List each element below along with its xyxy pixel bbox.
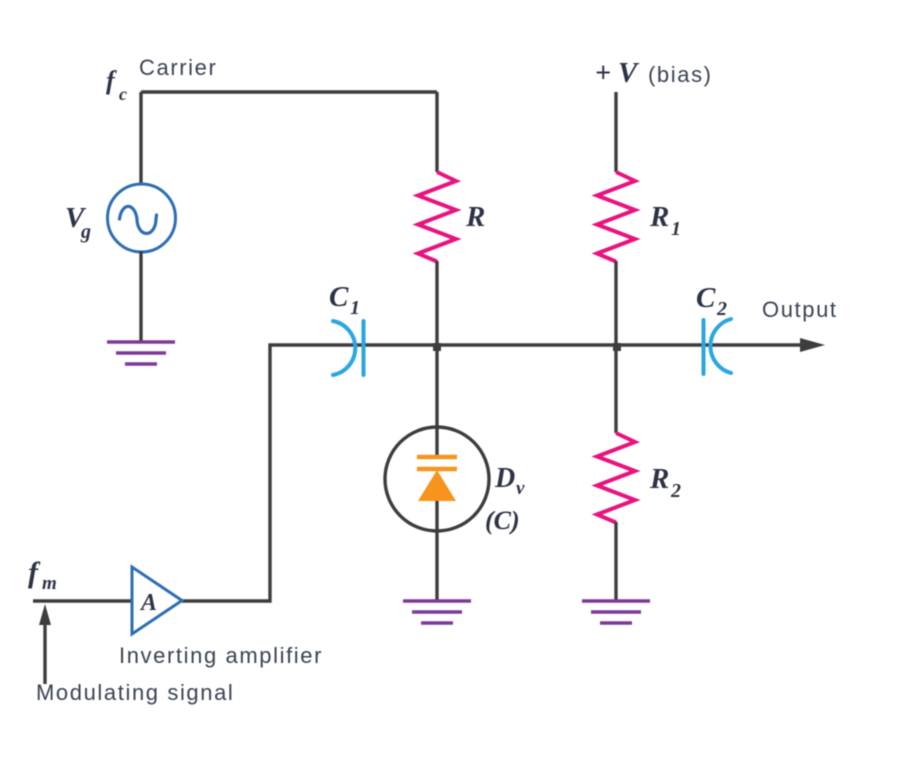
wire: bus down to R2 bbox=[614, 345, 617, 433]
ground below R2 bbox=[582, 601, 650, 623]
capacitor C1 bbox=[333, 321, 364, 375]
label R1 bbox=[649, 201, 681, 240]
label C1 bbox=[329, 281, 360, 319]
label R2 bbox=[649, 463, 681, 502]
svg-text:(bias): (bias) bbox=[648, 62, 713, 87]
svg-text:A: A bbox=[139, 590, 157, 616]
svg-text:2: 2 bbox=[670, 480, 681, 502]
svg-text:v: v bbox=[516, 478, 525, 499]
resistor R2 bbox=[597, 433, 635, 523]
svg-text:Carrier: Carrier bbox=[139, 55, 217, 80]
svg-text:Modulating signal: Modulating signal bbox=[36, 680, 234, 705]
wire: R2 bottom to ground bbox=[614, 522, 617, 601]
modulating signal arrow bbox=[39, 604, 51, 684]
source Vg bbox=[108, 184, 176, 252]
resistor R bbox=[418, 172, 456, 262]
svg-text:D: D bbox=[494, 463, 515, 494]
svg-text:1: 1 bbox=[350, 297, 360, 319]
svg-text:C: C bbox=[696, 282, 716, 314]
svg-text:V: V bbox=[618, 57, 640, 89]
wire: fm input wire bbox=[33, 599, 132, 602]
ground below Vg bbox=[107, 342, 175, 364]
wire: from top wire down to resistor R bbox=[435, 92, 438, 172]
wire: +V bias drop to R1 bbox=[614, 92, 617, 172]
wire: from amp output up and right to C1 bbox=[182, 345, 352, 601]
svg-text:2: 2 bbox=[716, 298, 727, 320]
wire: main horizontal bus between C1 and C2 bbox=[352, 343, 804, 346]
wire: left vertical down to Vg source bbox=[139, 92, 142, 183]
wire: bus down to varactor bbox=[435, 345, 438, 457]
wire: top carrier wire from fc corner to R bbox=[141, 90, 437, 93]
ground below varactor bbox=[403, 601, 471, 623]
wire: output with arrow bbox=[800, 338, 825, 352]
svg-text:Inverting amplifier: Inverting amplifier bbox=[119, 643, 323, 668]
svg-text:m: m bbox=[42, 573, 57, 594]
svg-text:C: C bbox=[329, 281, 349, 313]
svg-text:Output: Output bbox=[762, 297, 838, 322]
capacitor C2 bbox=[704, 319, 732, 374]
svg-text:f: f bbox=[106, 66, 117, 95]
resistor R1 bbox=[597, 172, 635, 262]
node at R1 / R2 junction bbox=[613, 343, 621, 351]
svg-text:g: g bbox=[80, 221, 91, 243]
svg-text:f: f bbox=[28, 556, 41, 589]
label +V (bias) bbox=[595, 57, 713, 89]
svg-text:c: c bbox=[119, 84, 127, 104]
svg-text:R: R bbox=[649, 463, 669, 495]
svg-text:R: R bbox=[465, 201, 485, 233]
label fm bbox=[28, 556, 57, 594]
wire: Vg bottom to ground bbox=[139, 251, 142, 342]
op-amp A (inverting amplifier) bbox=[132, 567, 182, 634]
wire: R1 bottom to bus bbox=[614, 261, 617, 345]
node at R / varactor junction bbox=[433, 343, 441, 351]
varactor diode Dv bbox=[385, 427, 489, 531]
label C2 bbox=[696, 282, 727, 320]
label Dv bbox=[494, 463, 525, 499]
svg-text:+: + bbox=[595, 58, 611, 89]
wire: R bottom to main node bbox=[435, 261, 438, 345]
label Vg bbox=[65, 202, 91, 243]
svg-text:(C): (C) bbox=[485, 506, 520, 535]
label fc bbox=[106, 66, 127, 104]
svg-text:1: 1 bbox=[671, 218, 681, 240]
svg-text:R: R bbox=[649, 201, 669, 233]
wire: varactor to ground bbox=[435, 501, 438, 601]
